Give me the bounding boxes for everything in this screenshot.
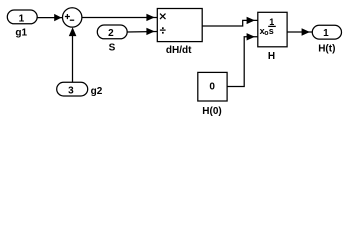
arrowhead into sum xyxy=(54,14,61,21)
constant block 0 (H(0)) xyxy=(198,72,227,101)
sum block circle xyxy=(62,8,81,27)
arrowhead into divide port 2 xyxy=(146,28,154,35)
svg-text:g1: g1 xyxy=(15,28,27,39)
arrowhead up into sum bottom xyxy=(69,27,77,36)
divide ./. symbol bar xyxy=(160,29,166,31)
svg-text:S: S xyxy=(109,42,116,53)
inport oval 2 (S) xyxy=(97,25,127,39)
integrator block H xyxy=(258,12,287,47)
inport oval 1 (g1) xyxy=(7,10,37,24)
inport oval 3 (g2) xyxy=(57,82,88,96)
svg-text:0: 0 xyxy=(209,81,215,92)
wire integrator to outport xyxy=(287,31,312,33)
sum plus sign xyxy=(65,14,70,19)
wire sum to divide xyxy=(82,17,158,19)
svg-text:g2: g2 xyxy=(91,86,103,97)
svg-text:H(0): H(0) xyxy=(202,106,221,117)
svg-text:s: s xyxy=(269,26,274,36)
svg-text:1: 1 xyxy=(19,13,25,24)
wire g1 to sum xyxy=(37,17,62,19)
svg-text:H: H xyxy=(268,51,275,62)
integrator fraction bar xyxy=(268,25,276,27)
wire g2 up to sum xyxy=(72,35,74,82)
sum minus sign xyxy=(70,19,74,21)
svg-text:H(t): H(t) xyxy=(318,43,335,54)
arrowhead into divide port 1 xyxy=(146,14,154,21)
divide block dH/dt xyxy=(157,9,202,42)
arrowhead into outport xyxy=(302,28,310,35)
wire divide to integrator (jog) xyxy=(202,20,258,26)
svg-text:1: 1 xyxy=(323,28,329,39)
svg-text:2: 2 xyxy=(108,28,114,39)
divide x symbol xyxy=(160,14,166,20)
arrowhead into integrator port x0 xyxy=(247,33,255,40)
outport oval 1 (H(t)) xyxy=(312,25,341,39)
svg-text:dH/dt: dH/dt xyxy=(166,45,192,56)
svg-text:3: 3 xyxy=(68,86,74,97)
divide dots of division sign xyxy=(162,27,164,29)
wire S to divide xyxy=(127,31,158,34)
arrowhead into integrator port 1 xyxy=(247,17,255,24)
wire H(0) to integrator (jog) xyxy=(227,37,258,87)
